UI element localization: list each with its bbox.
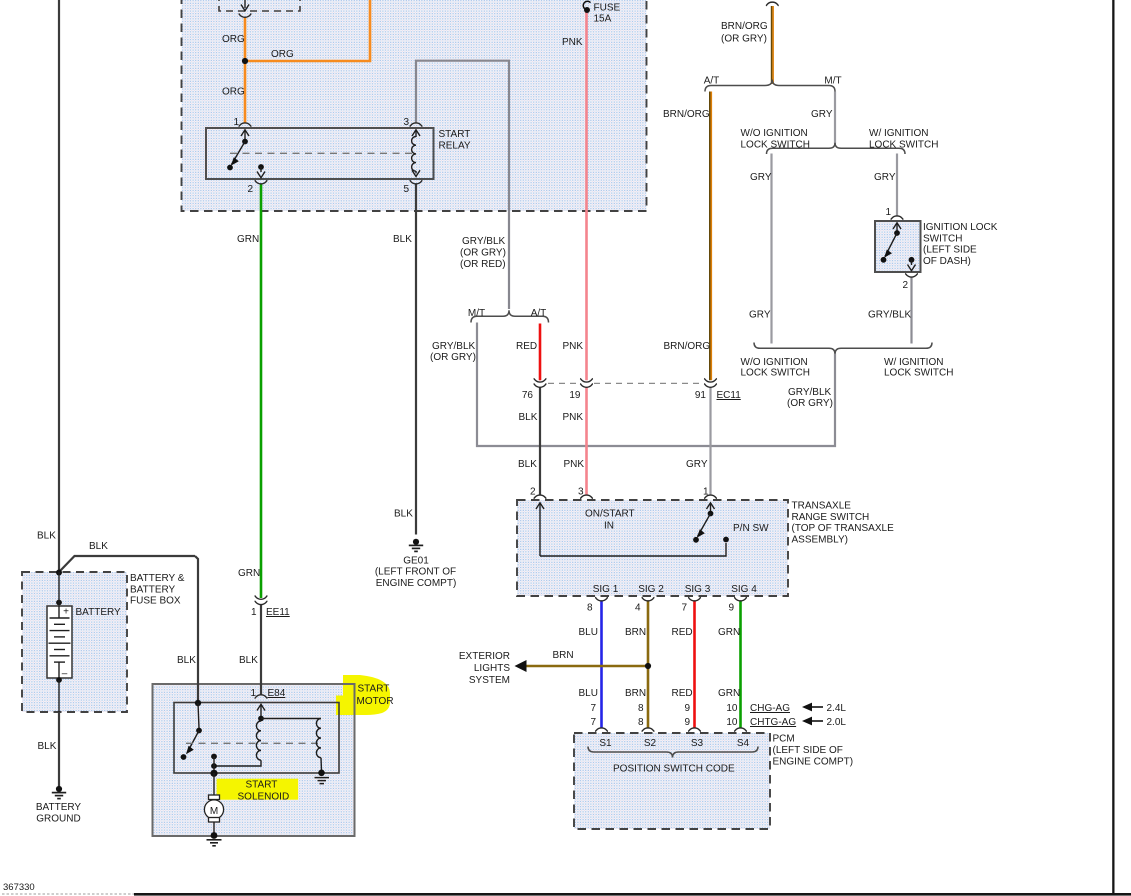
- svg-text:GRY: GRY: [686, 459, 708, 470]
- start relay box: [206, 128, 434, 179]
- svg-text:8: 8: [638, 717, 644, 728]
- svg-text:BATTERY: BATTERY: [36, 802, 82, 813]
- svg-text:SOLENOID: SOLENOID: [238, 792, 290, 803]
- svg-text:RANGE SWITCH: RANGE SWITCH: [792, 512, 870, 523]
- svg-text:76: 76: [522, 390, 534, 401]
- svg-text:(OR GRY): (OR GRY): [430, 352, 476, 363]
- svg-text:+: +: [63, 607, 69, 618]
- svg-text:RELAY: RELAY: [439, 141, 471, 152]
- svg-text:5: 5: [403, 184, 409, 195]
- ignition lock switch box: [875, 221, 921, 272]
- small dashed box top: [219, 0, 300, 11]
- svg-text:PNK: PNK: [563, 341, 584, 352]
- svg-text:ORG: ORG: [271, 49, 294, 60]
- ground below motor box: [207, 832, 222, 846]
- svg-text:SYSTEM: SYSTEM: [469, 675, 510, 686]
- wire BRN/ORG A/T branch to EC11 pin 91: [709, 92, 711, 381]
- svg-text:PNK: PNK: [563, 412, 584, 423]
- svg-text:LOCK SWITCH: LOCK SWITCH: [741, 368, 810, 379]
- svg-text:GRY: GRY: [749, 310, 771, 321]
- svg-text:BLK: BLK: [177, 655, 196, 666]
- svg-text:GROUND: GROUND: [36, 814, 80, 825]
- svg-text:EE11: EE11: [266, 607, 290, 618]
- wire GRY w/ ignition lock switch branch to switch pin 1: [896, 154, 898, 217]
- svg-text:GRY: GRY: [750, 172, 772, 183]
- svg-text:W/ IGNITION: W/ IGNITION: [884, 357, 943, 368]
- node BRN junction: [645, 663, 651, 669]
- arrow to exterior lights system: [515, 660, 527, 672]
- split brace M/T,A/T (below relay): [471, 310, 549, 322]
- svg-text:–: –: [62, 669, 68, 680]
- terminal BRN/ORG top: [766, 2, 779, 6]
- svg-text:9: 9: [728, 603, 734, 614]
- svg-text:367330: 367330: [3, 882, 35, 893]
- relay dashed link: [230, 152, 414, 154]
- wire BLK battery feed (left vertical): [58, 0, 60, 572]
- curly brace position switch code: [588, 747, 758, 758]
- svg-text:START: START: [439, 129, 471, 140]
- transaxle pin 1 terminal: [704, 495, 717, 499]
- svg-text:2: 2: [902, 280, 908, 291]
- svg-text:PNK: PNK: [562, 37, 583, 48]
- svg-text:(OR GRY): (OR GRY): [460, 248, 506, 259]
- svg-text:FUSE BOX: FUSE BOX: [130, 596, 181, 607]
- wire GRY/BLK merged down and left to M/T join: [477, 323, 835, 447]
- svg-text:GRY: GRY: [811, 109, 833, 120]
- arrow 2.0L: [802, 717, 812, 726]
- start motor box border redraw over highlight: [153, 684, 355, 836]
- svg-text:BLK: BLK: [518, 459, 537, 470]
- merge brace to GRY/BLK: [754, 343, 932, 354]
- svg-text:M: M: [210, 806, 218, 817]
- yellow highlight START SOLENOID: [217, 779, 299, 800]
- svg-text:3: 3: [578, 487, 584, 498]
- svg-text:4: 4: [635, 603, 641, 614]
- svg-text:SWITCH: SWITCH: [923, 233, 962, 244]
- connector EC11 pin 76: [534, 379, 547, 383]
- svg-text:GRN: GRN: [718, 688, 740, 699]
- transaxle pin 2 terminal: [534, 495, 547, 499]
- svg-text:GRN: GRN: [718, 627, 740, 638]
- svg-text:IGNITION LOCK: IGNITION LOCK: [923, 222, 998, 233]
- svg-text:BRN/ORG: BRN/ORG: [663, 109, 710, 120]
- svg-text:2: 2: [247, 184, 253, 195]
- svg-text:RED: RED: [672, 627, 693, 638]
- svg-text:2: 2: [530, 487, 536, 498]
- relay pin 1 terminal: [239, 123, 252, 127]
- wire RED A/T branch to EC11 pin 76: [539, 324, 542, 381]
- svg-text:IN: IN: [604, 520, 614, 531]
- svg-text:A/T: A/T: [704, 76, 720, 87]
- svg-text:15A: 15A: [594, 14, 612, 25]
- terminal at fuse box small box (pin to ORG): [241, 5, 249, 11]
- ON/START IN arrow: [536, 503, 544, 509]
- svg-text:S2: S2: [644, 738, 657, 749]
- ignition lock switch pin 1 terminal: [891, 216, 904, 220]
- arrow 2.4L: [802, 703, 812, 712]
- wire BLK from relay pin 5 to GE01: [415, 184, 417, 535]
- svg-text:BRN: BRN: [553, 650, 574, 661]
- P/N SW: [707, 503, 715, 509]
- svg-text:EXTERIOR: EXTERIOR: [459, 651, 510, 662]
- svg-text:BATTERY &: BATTERY &: [130, 573, 185, 584]
- svg-text:BATTERY: BATTERY: [76, 607, 122, 618]
- svg-text:(LEFT SIDE: (LEFT SIDE: [923, 245, 977, 256]
- svg-text:2.0L: 2.0L: [827, 717, 847, 728]
- svg-text:S3: S3: [691, 738, 704, 749]
- svg-text:1: 1: [251, 607, 257, 618]
- wire BLU SIG1: [600, 601, 603, 728]
- svg-text:ORG: ORG: [222, 87, 245, 98]
- ground battery: [52, 786, 66, 799]
- connector E84: [255, 695, 268, 699]
- start motor box: [153, 684, 355, 836]
- fuse box region (large dashed): [182, 0, 647, 211]
- connector EE11: [255, 596, 268, 600]
- wire GRY/BLK from ignition switch pin 2: [910, 277, 912, 343]
- split brace W/O-W/ ignition lock switch: [767, 143, 906, 154]
- relay coil: [412, 130, 420, 136]
- motor M: [213, 773, 215, 795]
- svg-text:(LEFT FRONT OF: (LEFT FRONT OF: [375, 567, 456, 578]
- wire GRY M/T branch down to second split: [834, 92, 836, 144]
- svg-text:BLK: BLK: [37, 531, 56, 542]
- svg-text:(TOP OF TRANSAXLE: (TOP OF TRANSAXLE: [792, 523, 895, 534]
- svg-text:BLU: BLU: [579, 627, 598, 638]
- svg-text:LOCK SWITCH: LOCK SWITCH: [741, 139, 810, 150]
- wire BLK EE11 to E84: [260, 605, 262, 695]
- wire BRN SIG2: [647, 601, 650, 728]
- solenoid dashed link: [186, 742, 318, 744]
- relay pin 5 terminal: [410, 180, 423, 184]
- svg-text:GRN: GRN: [237, 234, 259, 245]
- svg-text:1: 1: [703, 487, 709, 498]
- split brace A/T,M/T (top right): [705, 80, 835, 92]
- svg-text:ORG: ORG: [222, 34, 245, 45]
- svg-text:SIG 3: SIG 3: [685, 584, 711, 595]
- svg-text:FUSE: FUSE: [594, 3, 621, 14]
- svg-text:GRY/BLK: GRY/BLK: [432, 341, 475, 352]
- svg-text:CHG-AG: CHG-AG: [750, 703, 790, 714]
- wire PNK from fuse to EC11 pin 19: [585, 10, 588, 380]
- svg-text:(OR RED): (OR RED): [460, 259, 506, 270]
- svg-text:E84: E84: [268, 688, 286, 699]
- transaxle range switch box (dashed): [517, 500, 788, 596]
- svg-text:POSITION SWITCH CODE: POSITION SWITCH CODE: [613, 764, 735, 775]
- svg-text:1: 1: [233, 117, 239, 128]
- node ORG junction: [242, 58, 248, 64]
- transaxle SIG pin terminals: [595, 597, 608, 601]
- svg-text:BLK: BLK: [394, 509, 413, 520]
- svg-text:W/O IGNITION: W/O IGNITION: [741, 357, 808, 368]
- wire GRY/BLK from relay pin 3 up and over: [416, 61, 509, 309]
- relay pin 3 terminal: [410, 123, 423, 127]
- wire GRY EC11 pin 91 to transaxle pin 1: [709, 387, 711, 495]
- wire GRN SIG4: [739, 601, 742, 728]
- svg-text:M/T: M/T: [824, 76, 841, 87]
- wire GRY w/o ignition lock switch branch: [770, 154, 772, 344]
- svg-text:PCM: PCM: [773, 734, 795, 745]
- svg-text:GRN: GRN: [238, 568, 260, 579]
- svg-text:OF DASH): OF DASH): [923, 256, 971, 267]
- svg-text:1: 1: [250, 688, 256, 699]
- svg-text:LIGHTS: LIGHTS: [474, 663, 510, 674]
- svg-text:BLK: BLK: [89, 541, 108, 552]
- svg-text:8: 8: [587, 603, 593, 614]
- ground inside motor box: [315, 770, 330, 784]
- wire GRN from relay pin 2 to EE11: [260, 184, 263, 598]
- svg-text:START: START: [358, 684, 390, 695]
- svg-text:MOTOR: MOTOR: [357, 696, 394, 707]
- wire BRN to exterior lights: [524, 665, 648, 668]
- wire BLK branch to start motor: [59, 556, 195, 572]
- svg-text:GE01: GE01: [403, 556, 429, 567]
- wire BLK below battery box to ground: [58, 712, 60, 787]
- solenoid switch: [195, 700, 201, 706]
- svg-text:BLU: BLU: [579, 688, 598, 699]
- battery & battery fuse box (dashed): [22, 572, 127, 712]
- svg-text:(OR GRY): (OR GRY): [721, 34, 767, 45]
- svg-text:BRN: BRN: [625, 627, 646, 638]
- svg-text:91: 91: [695, 390, 707, 401]
- connector EC11 pin 91: [704, 379, 717, 383]
- switch arm relay: [241, 130, 249, 136]
- wire BLK EC11 pin 76 to transaxle pin 2: [539, 387, 541, 495]
- svg-text:BLK: BLK: [239, 655, 258, 666]
- svg-text:ON/START: ON/START: [585, 508, 635, 519]
- svg-text:S4: S4: [737, 738, 750, 749]
- wire RED SIG3: [693, 601, 696, 728]
- svg-text:GRY/BLK: GRY/BLK: [868, 310, 911, 321]
- svg-text:10: 10: [726, 703, 738, 714]
- svg-text:10: 10: [726, 717, 738, 728]
- wire BRN/ORG main (two-tone): [771, 6, 773, 84]
- svg-text:M/T: M/T: [468, 308, 485, 319]
- svg-text:SIG 1: SIG 1: [593, 584, 619, 595]
- svg-text:BLK: BLK: [38, 741, 57, 752]
- svg-text:ENGINE COMPT): ENGINE COMPT): [773, 757, 854, 768]
- svg-text:ENGINE COMPT): ENGINE COMPT): [376, 578, 457, 589]
- transaxle pin 3 terminal: [580, 495, 593, 499]
- svg-text:SIG 4: SIG 4: [731, 584, 757, 595]
- svg-text:1: 1: [885, 207, 891, 218]
- svg-text:BLK: BLK: [519, 412, 538, 423]
- svg-text:A/T: A/T: [531, 308, 547, 319]
- svg-text:3: 3: [403, 117, 409, 128]
- svg-text:W/ IGNITION: W/ IGNITION: [869, 128, 928, 139]
- relay pin 2 contact: [258, 164, 264, 170]
- svg-text:BATTERY: BATTERY: [130, 584, 176, 595]
- svg-text:(LEFT SIDE OF: (LEFT SIDE OF: [773, 745, 843, 756]
- wire ORG from fuse box to relay pin 1: [244, 18, 247, 124]
- svg-text:BRN: BRN: [625, 688, 646, 699]
- yellow highlight START MOTOR: [336, 675, 390, 715]
- svg-text:W/O IGNITION: W/O IGNITION: [741, 128, 808, 139]
- solenoid coil right (motor winding): [316, 719, 321, 758]
- svg-text:(OR GRY): (OR GRY): [787, 398, 833, 409]
- inner solenoid box: [174, 703, 339, 774]
- E84 arrow and solenoid coil left: [257, 704, 265, 710]
- svg-text:9: 9: [684, 703, 690, 714]
- svg-text:PNK: PNK: [564, 459, 585, 470]
- svg-text:RED: RED: [516, 341, 537, 352]
- svg-text:LOCK SWITCH: LOCK SWITCH: [869, 139, 938, 150]
- svg-text:7: 7: [681, 603, 687, 614]
- svg-text:BLK: BLK: [393, 234, 412, 245]
- svg-text:LOCK SWITCH: LOCK SWITCH: [884, 368, 953, 379]
- connector EC11 pin 19: [580, 379, 593, 383]
- svg-text:9: 9: [684, 717, 690, 728]
- svg-text:7: 7: [590, 717, 596, 728]
- svg-text:RED: RED: [672, 688, 693, 699]
- svg-text:GRY/BLK: GRY/BLK: [788, 387, 831, 398]
- node junction at battery box top: [56, 570, 62, 576]
- svg-text:7: 7: [590, 703, 596, 714]
- svg-text:GRY: GRY: [874, 172, 896, 183]
- svg-text:SIG 2: SIG 2: [638, 584, 664, 595]
- svg-text:START: START: [246, 780, 278, 791]
- wire ORG branch horizontal: [245, 0, 370, 61]
- PCM box (dashed): [574, 733, 770, 829]
- svg-text:2.4L: 2.4L: [827, 703, 847, 714]
- svg-text:ASSEMBLY): ASSEMBLY): [792, 534, 849, 545]
- ignition lock switch pin 2 terminal: [905, 274, 918, 278]
- svg-text:CHTG-AG: CHTG-AG: [750, 717, 796, 728]
- svg-text:19: 19: [569, 390, 581, 401]
- svg-text:BRN/ORG: BRN/ORG: [664, 341, 711, 352]
- svg-text:EC11: EC11: [717, 390, 742, 401]
- relay pin 2 terminal: [255, 180, 268, 184]
- svg-text:BRN/ORG: BRN/ORG: [721, 21, 768, 32]
- svg-text:P/N SW: P/N SW: [733, 523, 769, 534]
- svg-text:S1: S1: [599, 738, 612, 749]
- svg-text:TRANSAXLE: TRANSAXLE: [792, 501, 852, 512]
- PCM pin terminals: [595, 728, 608, 732]
- connector EC11 dashed line: [548, 382, 703, 384]
- wire PNK EC11 pin 19 to transaxle pin 3: [585, 387, 588, 495]
- svg-text:GRY/BLK: GRY/BLK: [462, 236, 505, 247]
- svg-text:8: 8: [638, 703, 644, 714]
- ground GE01: [409, 539, 423, 552]
